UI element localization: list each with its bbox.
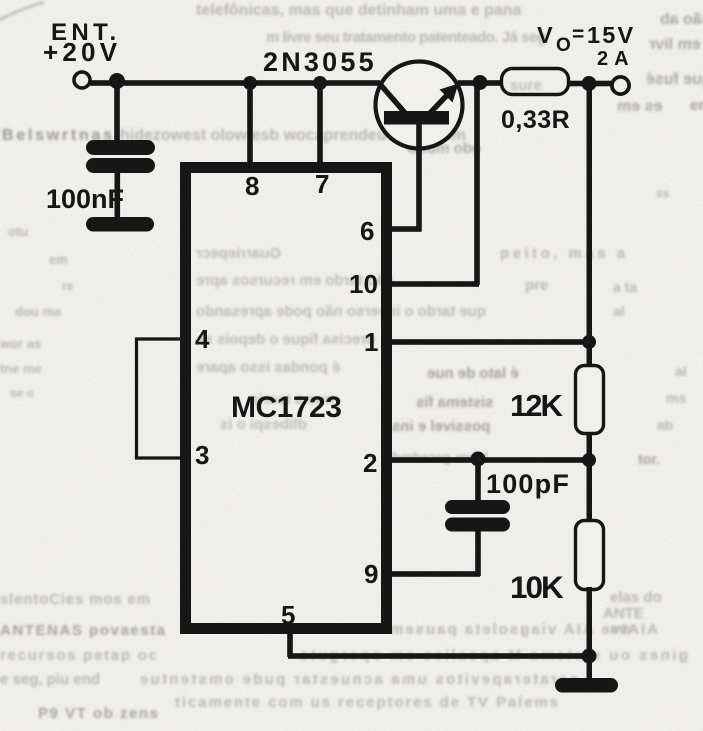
wire: pin 8 stub [247,83,253,165]
svg-text:+20V: +20V [43,37,121,67]
svg-text:2N3055: 2N3055 [263,47,377,77]
ground (below C1) [86,217,154,232]
svg-text:8: 8 [245,171,259,201]
input terminal ENT +20V [74,72,90,88]
svg-text:otu: otu [8,224,28,239]
capacitor C2 100pF plate 1 [445,500,510,514]
capacitor C2 100pF plate 2 [445,518,510,532]
svg-text:3: 3 [195,440,209,470]
wire: 10K to ground node [587,587,593,657]
wire: pin 6 to transistor base [388,226,421,232]
svg-text:ANTE: ANTE [603,605,644,622]
svg-text:telefônicas, mas que detinham: telefônicas, mas que detinham uma e pana [196,2,522,19]
wire: tap down to C1 [114,82,120,142]
svg-text:slentoCies mos em: slentoCies mos em [0,591,150,608]
wire: tap down to C2 [475,459,481,501]
svg-text:6: 6 [360,216,374,246]
svg-text:pre: pre [525,277,548,294]
wire: pin 1 run [388,339,589,345]
node: 100pF tap [471,452,486,467]
wire: right rail (top) [587,83,593,366]
wire: input to transistor (top rail left) [90,80,380,86]
svg-text:2: 2 [363,448,377,478]
svg-text:al: al [675,363,687,379]
wire: C1 to ground [115,172,121,218]
svg-text:tne me: tne me [0,361,42,376]
svg-text:possivel e ins: possivel e ins [392,418,490,435]
svg-text:dou ma: dou ma [15,304,62,319]
svg-text:O: O [556,35,571,56]
svg-text:e seg, piu end: e seg, piu end [0,671,100,688]
wire: pin 10 run [388,281,479,287]
resistor R1 0,33R [502,69,569,95]
wire: pin 5 stub [287,631,293,657]
svg-text:são ab: são ab [660,11,703,28]
svg-text:10: 10 [349,269,378,299]
svg-text:AIAIve AIA viagsoleta pausem: AIAIve AIA viagsoleta pausem [390,621,658,638]
svg-text:recursos petap oc: recursos petap oc [0,647,157,664]
svg-text:MC1723: MC1723 [231,391,341,424]
svg-text:es em: es em [617,98,662,115]
capacitor C1 100nF plate 2 [86,158,155,173]
svg-text:100nF: 100nF [46,184,124,214]
svg-text:9: 9 [364,559,378,589]
svg-text:Guarriepecr: Guarriepecr [196,245,281,262]
node: pin 2 / divider junction [582,453,596,467]
svg-text:2A: 2A [597,48,635,70]
svg-text:em livr: em livr [649,36,701,53]
svg-text:é pondas isso apare: é pondas isso apare [196,359,340,376]
svg-text:ss: ss [656,186,670,200]
svg-text:P9 VT ob zens: P9 VT ob zens [38,705,158,722]
svg-text:V: V [537,22,553,48]
node: output junction [582,76,597,91]
IC U1 MC1723 box [186,168,387,629]
svg-text:elas do: elas do [610,589,662,606]
svg-text:0,33R: 0,33R [501,106,570,134]
svg-text:1: 1 [364,327,378,357]
node: 100nF tap [109,73,125,89]
node: pin 8 tap [243,76,257,90]
wire: collector junction down to pin 10 [474,83,480,285]
svg-text:tor.: tor. [638,451,660,467]
resistor R3 10K [576,521,604,590]
svg-text:ab: ab [657,417,673,433]
wire: pin 2 run [388,457,589,463]
capacitor C1 100nF plate 1 [86,140,155,155]
node: ground junction [582,649,597,664]
svg-text:ms: ms [666,390,686,406]
wire: pin 5 to ground run [288,653,589,659]
transistor Q1 2N3055 [376,62,463,232]
node: pin 7 tap [313,76,327,90]
wire: pin 7 stub [317,83,323,165]
svg-text:se o: se o [10,386,34,400]
svg-text:100pF: 100pF [486,469,570,499]
svg-text:que fusé: que fusé [646,71,703,88]
wire: rail 12K to 10K [587,432,593,521]
svg-text:ANTENAS povaesta: ANTENAS povaesta [0,622,166,639]
svg-text:15V: 15V [587,22,635,48]
svg-text:a ta: a ta [613,279,637,295]
node: pin 1 / 12K junction [582,335,596,349]
svg-text:caraterapevitos uma acnuestar: caraterapevitos uma acnuestar pude omste… [140,671,578,688]
svg-text:al: al [613,303,625,319]
svg-text:que tardo o inverso não pode a: que tardo o inverso não pode apresando [196,303,486,320]
wire: transistor to R1 [458,80,502,86]
ground (bottom) [555,678,618,693]
svg-text:=: = [572,23,584,46]
svg-text:sistema fis: sistema fis [416,394,494,411]
svg-text:em: em [690,97,703,114]
svg-text:m livre seu tratamento patente: m livre seu tratamento patenteado. Já se… [266,29,546,46]
svg-text:5: 5 [281,600,295,630]
svg-text:em: em [49,252,68,267]
svg-text:7: 7 [315,169,329,199]
wire: ground stub [587,656,593,682]
wire: C2 to pin 9 run [475,530,481,576]
svg-text:re: re [62,279,74,293]
svg-text:é lato de nue: é lato de nue [427,365,519,382]
node: collector junction [473,75,488,90]
output terminal Vo [612,77,629,94]
svg-text:12K: 12K [510,388,563,423]
svg-text:sure: sure [510,77,542,94]
wire: R1 to output terminal [568,81,611,87]
svg-text:wor as: wor as [0,336,41,351]
resistor R2 12K [576,366,604,434]
wire: pin 4 / pin 3 bracket [137,339,182,458]
svg-text:10K: 10K [510,569,564,605]
wire: pin 9 run [388,571,480,577]
svg-text:precisa fique o depois se: precisa fique o depois se [196,331,375,348]
svg-text:4: 4 [195,324,210,354]
